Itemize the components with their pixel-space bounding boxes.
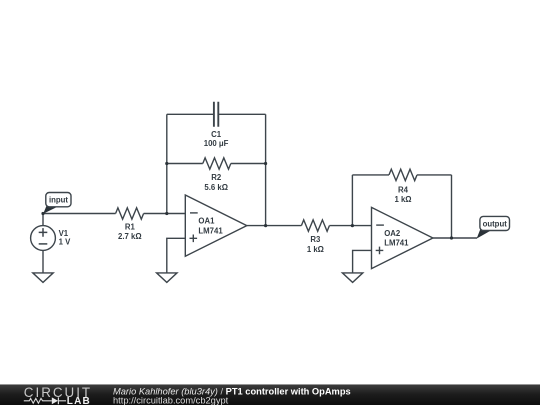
wire: feedback right vertical (C1 row down to OA1 output): [265, 114, 267, 225]
label: OA2 designator: [384, 229, 401, 238]
label: R3 designator: [310, 235, 321, 244]
label: C1 designator: [211, 130, 222, 139]
wire: R1 to OA1 inverting input: [144, 213, 186, 215]
wire: R4 row right: [417, 174, 452, 176]
svg-text:LAB: LAB: [67, 396, 91, 405]
footer url line: [113, 396, 229, 405]
resistor R4 zigzag: [389, 169, 417, 180]
svg-text:output: output: [483, 219, 508, 228]
ground under OA2: [342, 273, 362, 283]
svg-text:R3: R3: [310, 235, 321, 244]
footer title line: author and circuit name: [113, 387, 351, 397]
svg-text:5.6 kΩ: 5.6 kΩ: [204, 183, 228, 192]
node: R2 row right junction: [264, 162, 267, 165]
ground under OA1: [157, 273, 177, 283]
wire: C1 row left: [167, 113, 214, 115]
svg-text:100 μF: 100 μF: [204, 139, 229, 148]
svg-text:LM741: LM741: [198, 226, 223, 235]
node: R2 row left junction: [165, 162, 168, 165]
op-amp OA2 triangle: [372, 207, 433, 268]
voltage source V1: [31, 226, 56, 251]
wire: R2 row right: [231, 163, 266, 165]
wire: V1 bottom lead: [42, 250, 44, 273]
label: C1 value 100 uF: [204, 139, 229, 148]
wire: input node to R1: [43, 213, 116, 215]
svg-text:1 kΩ: 1 kΩ: [307, 245, 324, 254]
wire: R4 left vertical: [351, 175, 353, 226]
svg-text:2.7 kΩ: 2.7 kΩ: [118, 232, 142, 241]
label: OA2 part LM741: [384, 238, 409, 247]
label: R3 value 1 kOhm: [307, 245, 324, 254]
label: OA1 part LM741: [198, 226, 223, 235]
op-amp OA1 triangle: [185, 195, 247, 256]
svg-text:OA1: OA1: [198, 217, 215, 226]
capacitor C1: [214, 102, 218, 127]
CircuitLab logo resistor zigzag: [24, 398, 52, 403]
svg-text:1 kΩ: 1 kΩ: [394, 195, 411, 204]
resistor R2 zigzag: [203, 158, 231, 169]
svg-text:http://circuitlab.com/cb2gypt: http://circuitlab.com/cb2gypt: [113, 396, 229, 405]
node: R1 / feedback junction: [165, 212, 168, 215]
wire: OA1 output to R3: [247, 225, 302, 227]
flag: output: [477, 216, 510, 238]
node: input net junction: [41, 212, 44, 215]
svg-text:1 V: 1 V: [59, 238, 72, 247]
footer bar: [0, 384, 540, 405]
node: OA1 output / feedback junction: [264, 224, 267, 227]
wire: OA1 non-inverting input to ground column: [167, 238, 186, 273]
CircuitLab logo wordmark LAB: [67, 396, 91, 405]
resistor R1 zigzag: [116, 208, 144, 219]
label: V1 designator: [59, 229, 69, 238]
label: OA1 designator: [198, 217, 215, 226]
label: R1 value 2.7 kOhm: [118, 232, 142, 241]
svg-text:OA2: OA2: [384, 229, 401, 238]
label: V1 value 1 V: [59, 238, 72, 247]
svg-text:input: input: [49, 196, 68, 205]
label: R4 value 1 kOhm: [394, 195, 411, 204]
svg-text:C1: C1: [211, 130, 222, 139]
wire: R4 row left: [352, 174, 389, 176]
node: OA2 output / R4 junction: [450, 236, 453, 239]
wire: R2 row left: [167, 163, 203, 165]
svg-text:R2: R2: [211, 173, 222, 182]
flag: input: [43, 193, 71, 214]
wire: OA2 non-inverting input to ground column: [353, 250, 372, 273]
CircuitLab logo diode: [52, 397, 66, 404]
svg-text:LM741: LM741: [384, 238, 409, 247]
label: R2 designator: [211, 173, 222, 182]
CircuitLab logo wordmark CIRCUIT: [24, 385, 92, 400]
svg-text:R1: R1: [125, 222, 136, 231]
wire: C1 row right: [218, 113, 265, 115]
node: OA2 inverting input / R4 junction: [351, 224, 354, 227]
resistor R3 zigzag: [301, 220, 329, 231]
label: R4 designator: [398, 186, 409, 195]
wire: V1 top lead: [42, 214, 44, 226]
svg-text:R4: R4: [398, 186, 409, 195]
wire: feedback left vertical (node to C1 row): [166, 114, 168, 213]
ground under V1: [33, 273, 53, 283]
label: R1 designator: [125, 222, 136, 231]
wire: R4 right vertical down to OA2 output: [451, 175, 453, 238]
label: R2 value 5.6 kOhm: [204, 183, 228, 192]
wire: R3 to OA2 inverting input: [329, 225, 371, 227]
wire: OA2 output to output flag: [433, 237, 477, 239]
